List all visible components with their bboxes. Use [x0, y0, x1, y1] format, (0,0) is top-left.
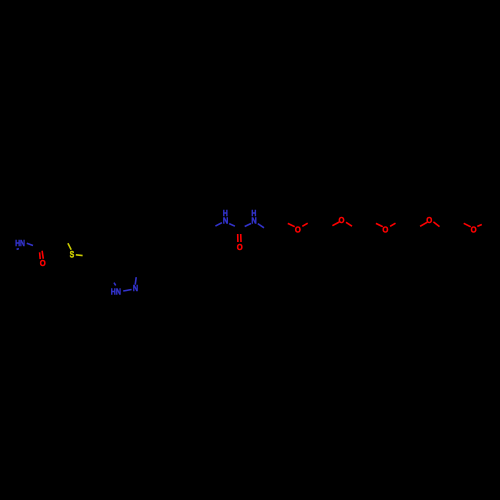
- urea: atom N (left nitrogen): [223, 215, 228, 225]
- svg-text:O: O: [339, 215, 345, 225]
- urea: wire C(=O)-N half-bond (right): [245, 224, 251, 227]
- svg-text:O: O: [382, 224, 388, 234]
- bond C=O double (amide carbonyl): [40, 251, 44, 259]
- PEG: wire O2-CH2 half-bond: [346, 222, 352, 226]
- pyrazole: bond N1-N2: [123, 290, 131, 292]
- PEG: atom O5 (terminal methoxy oxygen): [471, 224, 477, 234]
- wire: S-Ar half-bond: [76, 254, 83, 257]
- pyrazole: atom N2: [133, 283, 138, 293]
- svg-text:O: O: [237, 242, 243, 252]
- urea: bond C=O double: [238, 234, 241, 242]
- wire: N-C(=O) half-bond: [27, 243, 33, 245]
- PEG: atom O4: [426, 215, 432, 225]
- PEG: wire O5-CH3 half-bond: [477, 225, 482, 227]
- svg-text:O: O: [471, 224, 477, 234]
- amide head: label HN (N-methyl amide nitrogen): [15, 238, 25, 248]
- PEG: atom O2: [339, 215, 345, 225]
- urea: label H (right N-H hydrogen): [251, 208, 256, 218]
- pyrazole: label HN (N1-H): [111, 286, 121, 296]
- pyrazole: wire N1-C5 half-bond: [114, 283, 116, 286]
- PEG: wire O4-CH2 half-bond: [433, 222, 439, 227]
- PEG: atom O3: [382, 224, 388, 234]
- svg-text:S: S: [70, 249, 75, 259]
- urea: wire CH-N half-bond (left): [215, 223, 222, 226]
- PEG: atom O1: [295, 225, 301, 235]
- PEG: wire CH2-O2 half-bond: [332, 222, 339, 226]
- wire: N-CH3 half-bond: [17, 248, 19, 251]
- PEG: wire CH2-O5 half-bond: [464, 223, 471, 227]
- PEG: wire O1-CH2 half-bond: [302, 223, 307, 226]
- svg-text:HN: HN: [15, 238, 25, 248]
- PEG: wire O3-CH2 half-bond: [390, 223, 395, 226]
- urea: label H (left N-H hydrogen): [223, 208, 228, 218]
- atom S (thioether sulfur): [70, 249, 75, 259]
- urea: wire N-CH2 half-bond (right): [258, 224, 264, 228]
- wire: CH2-S half-bond: [68, 243, 71, 249]
- svg-text:O: O: [40, 258, 46, 268]
- svg-text:N: N: [251, 215, 256, 225]
- svg-text:N: N: [223, 215, 228, 225]
- urea: wire N-C(=O) half-bond (left): [229, 224, 235, 227]
- svg-text:HN: HN: [111, 286, 121, 296]
- atom O (amide carbonyl oxygen): [40, 258, 46, 268]
- PEG: wire CH2-O4 half-bond: [420, 222, 427, 226]
- svg-text:O: O: [295, 225, 301, 235]
- svg-text:O: O: [426, 215, 432, 225]
- pyrazole: wire N2-C3 half-bond: [135, 277, 136, 284]
- PEG: wire CH2-O1 half-bond: [288, 223, 295, 226]
- urea: atom O (carbonyl oxygen): [237, 242, 243, 252]
- urea: atom N (right nitrogen): [251, 215, 256, 225]
- PEG: wire CH2-O3 half-bond: [376, 223, 383, 226]
